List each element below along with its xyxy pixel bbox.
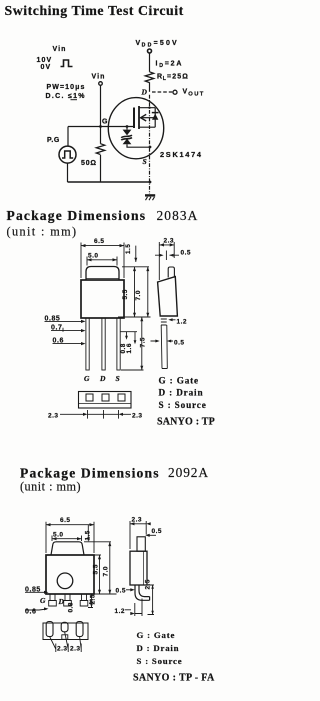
front view cap (86, 267, 119, 281)
svg-text:50Ω: 50Ω (81, 160, 97, 167)
side view 2092A foot (135, 585, 150, 600)
lead S 2092A (80, 594, 88, 606)
annotation PW=10us D.C.<=1% (46, 84, 86, 100)
svg-text:D : Drain: D : Drain (137, 643, 180, 653)
pin list 2083A (157, 375, 215, 427)
wire: P.G bottom lead (67, 163, 69, 182)
side view 2083A body (158, 277, 178, 316)
node VOUT terminal (173, 90, 177, 94)
svg-text:D: D (141, 88, 148, 97)
svg-text:G: G (40, 596, 46, 605)
svg-text:G : Gate: G : Gate (159, 375, 199, 385)
side view top tab (168, 267, 174, 278)
svg-text:D : Drain: D : Drain (159, 388, 204, 398)
svg-text:0.5: 0.5 (116, 588, 126, 595)
input waveform annotation Vin 10V/0V (37, 46, 67, 71)
svg-text:1.5: 1.5 (125, 244, 132, 254)
wire: dashed branch to VOUT (152, 91, 172, 93)
svg-text:S: S (143, 157, 147, 166)
svg-text:2.3: 2.3 (57, 646, 67, 653)
svg-text:Package Dimensions: Package Dimensions (20, 465, 160, 480)
svg-text:6.5: 6.5 (94, 238, 104, 245)
svg-text:2SK1474: 2SK1474 (160, 150, 203, 159)
wire: P.G top lead (67, 127, 69, 147)
mounting hole (57, 573, 73, 589)
svg-text:G : Gate: G : Gate (137, 630, 176, 640)
svg-text:SANYO : TP - FA: SANYO : TP - FA (133, 673, 215, 684)
svg-text:0V: 0V (41, 64, 52, 71)
svg-text:Package Dimensions: Package Dimensions (7, 208, 147, 223)
bottom view 2092A (43, 623, 88, 640)
svg-text:P.G: P.G (47, 137, 60, 144)
pin labels G D S (84, 374, 120, 383)
svg-text:6.5: 6.5 (60, 517, 70, 524)
lead D front (102, 318, 105, 370)
side view 2092A tab (137, 537, 145, 551)
svg-text:(unit : mm): (unit : mm) (20, 480, 81, 494)
wire: drain-source lead (dash-dot centerline) (149, 95, 151, 194)
bottom view 2083A (79, 392, 132, 409)
svg-text:2.3: 2.3 (132, 516, 142, 523)
svg-text:2.3: 2.3 (48, 412, 58, 419)
svg-text:7.0: 7.0 (135, 290, 142, 300)
svg-text:S : Source: S : Source (137, 656, 183, 666)
svg-text:G: G (102, 119, 108, 126)
svg-text:S: S (116, 374, 120, 383)
svg-text:D.C. ≤1%: D.C. ≤1% (46, 93, 86, 100)
pin list 2092A (133, 630, 215, 684)
ground (145, 194, 155, 196)
mosfet drain stub (139, 107, 155, 109)
svg-text:5.0: 5.0 (53, 531, 63, 538)
svg-text:5.5: 5.5 (93, 564, 100, 574)
resistor RL 25 ohm (145, 72, 153, 83)
wire: Vin terminal down to gate node (100, 86, 102, 127)
wire: gate line to MOSFET (68, 126, 134, 128)
resistor 50 ohm (100, 127, 102, 183)
svg-text:1.2: 1.2 (115, 608, 125, 615)
lead D 2092A (64, 594, 72, 606)
svg-text:1.2: 1.2 (177, 318, 187, 325)
front view body 2083A (81, 280, 124, 318)
svg-text:D: D (58, 597, 65, 606)
lead G 2092A (49, 594, 57, 606)
mosfet substrate stub with arrow (142, 117, 156, 119)
junction: zener return on source lead (149, 146, 152, 149)
svg-text:0.5: 0.5 (174, 339, 184, 346)
svg-text:7.0: 7.0 (103, 566, 110, 576)
svg-text:SANYO : TP: SANYO : TP (157, 417, 215, 428)
transistor 2SK1474 envelope circle (108, 98, 163, 159)
svg-text:2.3: 2.3 (70, 646, 80, 653)
side view lead (161, 325, 167, 369)
front view cap 2092A (51, 542, 84, 555)
svg-text:0.5: 0.5 (152, 528, 162, 535)
svg-text:Vin: Vin (53, 46, 67, 53)
mosfet channel bar (138, 106, 140, 129)
svg-text:10V: 10V (37, 57, 53, 64)
svg-text:(unit : mm): (unit : mm) (7, 225, 78, 239)
input pulse waveform glyph (61, 60, 73, 67)
lead S front (117, 318, 120, 370)
svg-text:2.5: 2.5 (89, 594, 96, 604)
svg-text:0.5: 0.5 (181, 249, 191, 256)
svg-text:D: D (99, 374, 106, 383)
svg-text:1.6: 1.6 (126, 343, 133, 353)
svg-text:2083A: 2083A (157, 208, 199, 223)
mosfet gate bar (133, 108, 135, 129)
lead G front (86, 318, 89, 370)
side view seat (161, 316, 167, 325)
svg-text:5.0: 5.0 (88, 252, 98, 259)
front view body 2092A (46, 555, 94, 594)
wire: VDD to RL (149, 53, 151, 72)
svg-text:Vin: Vin (92, 74, 106, 81)
svg-text:2.3: 2.3 (132, 412, 142, 419)
svg-text:7.5: 7.5 (140, 337, 147, 347)
svg-text:Switching Time Test Circuit: Switching Time Test Circuit (5, 3, 184, 18)
svg-text:5.5: 5.5 (122, 289, 129, 299)
mosfet source stub (139, 126, 155, 128)
svg-text:0.8: 0.8 (67, 602, 74, 612)
pin labels G D S 2092A (40, 596, 93, 606)
svg-text:2092A: 2092A (168, 465, 209, 480)
wire: RL to drain node (149, 82, 151, 92)
wire: ground rail (68, 181, 151, 183)
junction: rail / source lead (149, 181, 152, 184)
svg-text:2.5: 2.5 (144, 579, 151, 589)
gate protection zener pair (126, 125, 129, 128)
body diode (154, 108, 156, 128)
svg-text:PW=10μs: PW=10μs (47, 84, 86, 91)
svg-text:2.3: 2.3 (164, 237, 174, 244)
svg-text:G: G (84, 374, 90, 383)
side view 2092A body (130, 551, 147, 585)
svg-text:S : Source: S : Source (159, 400, 207, 410)
node G junction (99, 125, 102, 128)
